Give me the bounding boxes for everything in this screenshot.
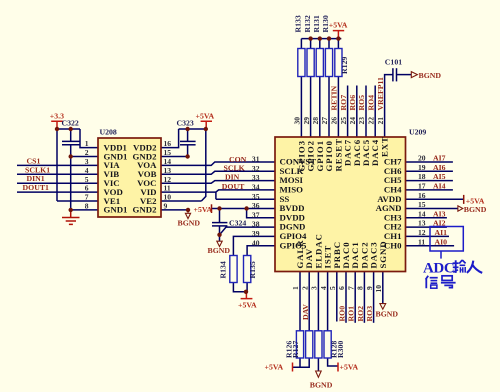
- ground BGND arrow AGND pin15: [458, 206, 463, 211]
- capacitor C101: [393, 68, 397, 81]
- svg-text:AI2: AI2: [433, 219, 446, 228]
- svg-text:U208: U208: [100, 128, 117, 137]
- resistor R132: [307, 49, 314, 77]
- svg-text:1: 1: [85, 139, 89, 148]
- wire SCLK VOB to pin32: [161, 171, 275, 174]
- svg-text:8: 8: [356, 286, 365, 290]
- resistor R128: [315, 331, 322, 358]
- resistor R134: [230, 256, 237, 283]
- wire GPIO4 pin39 to R134: [233, 236, 275, 255]
- capacitor C324: [212, 223, 227, 226]
- wire RO4 pin22: [374, 86, 376, 138]
- svg-text:AI6: AI6: [433, 163, 446, 172]
- ground BGND arrow R128: [316, 371, 322, 377]
- svg-text:+5VA: +5VA: [329, 21, 348, 30]
- svg-text:40: 40: [252, 238, 260, 247]
- svg-text:17: 17: [418, 182, 426, 191]
- wire +3.3 rail: [57, 128, 80, 130]
- svg-text:RO2: RO2: [356, 306, 365, 322]
- svg-text:15: 15: [418, 200, 426, 209]
- wire U208 pin9: [161, 209, 188, 211]
- capacitor C323: [180, 141, 196, 144]
- svg-text:DIN1: DIN1: [27, 174, 45, 183]
- wire VID: [161, 191, 216, 193]
- wire AGND pin15: [406, 208, 458, 210]
- svg-text:RO1: RO1: [347, 306, 356, 322]
- svg-text:GND2: GND2: [133, 205, 158, 215]
- svg-text:13: 13: [418, 219, 426, 228]
- wire CH3 pin14: [406, 217, 447, 219]
- svg-text:5: 5: [85, 175, 89, 184]
- ADC highlight box: [430, 227, 463, 252]
- svg-text:U209: U209: [409, 128, 426, 137]
- svg-text:15: 15: [164, 148, 172, 157]
- wire vertical +3.3 to VE1: [56, 129, 58, 201]
- svg-text:36: 36: [252, 201, 260, 210]
- U209 top pin numbers rotated: [293, 117, 385, 125]
- power +5VA pin16 right: [463, 195, 465, 204]
- svg-text:22: 22: [366, 117, 375, 125]
- svg-text:13: 13: [164, 166, 172, 175]
- svg-text:23: 23: [357, 117, 366, 125]
- svg-text:R129: R129: [340, 57, 349, 74]
- wire U209 bottom pin3: [317, 272, 319, 331]
- U209 right pin numbers: [418, 154, 426, 247]
- svg-text:25: 25: [339, 117, 348, 125]
- resistor R135: [244, 256, 251, 283]
- svg-text:6: 6: [337, 286, 346, 290]
- svg-text:SGND: SGND: [378, 240, 388, 268]
- power +5VA below R134 R135: [241, 292, 253, 299]
- wire DIN VOC to pin33: [161, 181, 275, 184]
- svg-text:RO7: RO7: [339, 95, 348, 111]
- svg-text:R127: R127: [291, 341, 300, 358]
- U208 left pin names: [104, 142, 128, 214]
- wire U208 pin10: [161, 200, 201, 202]
- svg-text:9: 9: [365, 286, 374, 290]
- wire RO7 pin25: [347, 86, 349, 138]
- wire U208 pin7: [57, 200, 98, 202]
- wire RO3 pin9: [373, 272, 375, 323]
- svg-text:SCLK: SCLK: [224, 163, 245, 172]
- wire SS pin35: [216, 198, 275, 200]
- svg-text:BGND: BGND: [464, 205, 487, 214]
- svg-text:R132: R132: [303, 15, 312, 32]
- resistor R126: [296, 331, 303, 358]
- wire U209 bottom pin4: [327, 272, 329, 331]
- U209 right pin names: [376, 157, 402, 251]
- svg-text:GND1: GND1: [104, 205, 128, 215]
- wire RO2 pin8: [363, 272, 365, 323]
- svg-text:RO5: RO5: [357, 95, 366, 111]
- U209 left pin names: [280, 157, 317, 251]
- svg-text:DOUT: DOUT: [222, 182, 245, 191]
- wire GPIO5 pin40 to R135: [247, 246, 275, 256]
- svg-text:ADC: ADC: [423, 261, 454, 277]
- wire CS1: [17, 164, 98, 166]
- svg-text:DOUT1: DOUT1: [23, 183, 50, 192]
- svg-text:38: 38: [252, 220, 260, 229]
- power +3.3: [51, 121, 63, 129]
- resistor R127: [306, 331, 313, 358]
- wire RO1 pin7: [354, 272, 356, 323]
- svg-text:2: 2: [85, 148, 89, 157]
- svg-text:39: 39: [252, 229, 260, 238]
- wire SGND pin10 to BGND: [382, 272, 384, 303]
- svg-text:C101: C101: [385, 57, 402, 66]
- svg-text:+5VA: +5VA: [340, 363, 359, 372]
- svg-text:1: 1: [291, 286, 300, 290]
- resistor R300: [324, 331, 331, 358]
- wire U209 bottom pin1: [299, 272, 301, 331]
- svg-text:DAV: DAV: [301, 304, 310, 320]
- wire CH0 pin11: [406, 245, 455, 247]
- power +5VA pin36: [211, 204, 213, 213]
- svg-text:AI3: AI3: [433, 209, 446, 218]
- svg-text:27: 27: [320, 117, 329, 125]
- svg-text:+5VA: +5VA: [196, 111, 215, 120]
- wire resistor leads top: [301, 39, 338, 49]
- wire U208 pin2: [71, 156, 98, 158]
- svg-text:4: 4: [319, 286, 328, 290]
- wire U209 top pin30: [300, 77, 302, 138]
- net label RETIN rotated: [330, 77, 385, 110]
- wire CH2 pin13: [406, 226, 447, 228]
- wire DVDD pin37 riser: [247, 209, 275, 218]
- svg-text:3: 3: [310, 286, 319, 290]
- wire RO0 pin6: [345, 272, 347, 323]
- svg-text:6: 6: [85, 184, 89, 193]
- wire DOUT1: [17, 191, 98, 193]
- svg-text:14: 14: [164, 157, 172, 166]
- wire DOUT pin34: [216, 190, 275, 199]
- wire R134 R135 bottoms: [233, 283, 247, 292]
- svg-text:EXT: EXT: [380, 136, 390, 157]
- svg-text:37: 37: [252, 210, 260, 219]
- ADC callout stem: [440, 251, 442, 259]
- power +5VA below R126: [292, 363, 294, 372]
- svg-text:C324: C324: [229, 219, 246, 228]
- svg-text:+5VA: +5VA: [194, 205, 213, 214]
- wire RO5 pin23: [365, 86, 367, 138]
- svg-text:AI5: AI5: [433, 172, 446, 181]
- svg-text:7: 7: [346, 286, 355, 290]
- wire U208 pin8: [71, 209, 98, 211]
- wire U209 bottom pin2: [308, 272, 310, 331]
- wire RO6 pin24: [356, 86, 358, 138]
- svg-text:BGND: BGND: [376, 310, 399, 319]
- wire R126 R127 bottoms to +5VA: [293, 358, 310, 367]
- wire SCLK1: [17, 173, 98, 175]
- svg-text:11: 11: [418, 237, 425, 246]
- U208 right pin names: [133, 142, 158, 214]
- wire R128 bottom to BGND: [317, 358, 319, 371]
- capacitor C322: [62, 141, 80, 144]
- wire VREFP11 pin21 to C101: [385, 75, 393, 137]
- svg-text:12: 12: [418, 228, 426, 237]
- resistor designators R133 R132 R131 R130 rotated: [219, 15, 349, 358]
- svg-text:+5VA: +5VA: [238, 301, 257, 310]
- wire U209 top pin26 RETIN: [337, 77, 339, 138]
- svg-text:7: 7: [85, 193, 89, 202]
- wire DIN1: [17, 182, 98, 184]
- svg-text:R134: R134: [219, 261, 228, 278]
- svg-text:18: 18: [418, 172, 426, 181]
- wire U209 top pin27: [328, 77, 330, 138]
- svg-text:32: 32: [252, 164, 260, 173]
- wire +5VA vertical to VE2: [201, 129, 205, 201]
- svg-text:14: 14: [418, 209, 426, 218]
- net label DAV rotated: [301, 304, 374, 322]
- svg-text:DIN: DIN: [225, 173, 240, 182]
- svg-text:9: 9: [164, 202, 168, 211]
- wire U209 right pin19: [406, 170, 453, 172]
- wire R300 bottom to +5VA: [328, 358, 338, 366]
- svg-text:RO3: RO3: [365, 306, 374, 322]
- svg-text:29: 29: [302, 117, 311, 125]
- wire +5VA rail right: [179, 128, 207, 130]
- svg-text:R300: R300: [336, 341, 345, 358]
- svg-text:RO6: RO6: [348, 95, 357, 111]
- glyph ru (入) drawn as paths: [467, 261, 482, 273]
- glyph hao (号) drawn as paths: [441, 276, 456, 288]
- svg-text:10: 10: [164, 193, 172, 202]
- svg-text:35: 35: [252, 192, 260, 201]
- svg-text:2: 2: [300, 286, 309, 290]
- wire AVDD pin16: [406, 198, 464, 200]
- wire U209 right pin20: [406, 161, 453, 163]
- svg-text:26: 26: [330, 117, 339, 125]
- resistor R131: [316, 49, 323, 77]
- svg-text:AI0: AI0: [435, 237, 448, 246]
- U208 left pin numbers: [85, 139, 89, 210]
- ground BGND arrow C324: [217, 241, 222, 246]
- svg-text:33: 33: [252, 173, 260, 182]
- resistor R130: [325, 49, 332, 77]
- wire C101 to BGND: [397, 74, 412, 76]
- U209 top pin names rotated: [296, 136, 389, 171]
- U209 bottom pin names rotated: [295, 233, 388, 268]
- svg-text:8: 8: [85, 202, 89, 211]
- wire CH1 pin12: [406, 235, 450, 237]
- svg-text:BGND: BGND: [310, 380, 333, 389]
- U209 bottom pin numbers rotated: [291, 285, 383, 293]
- ground BGND arrow C101: [411, 72, 417, 78]
- svg-text:VREFP11: VREFP11: [376, 77, 385, 110]
- svg-text:31: 31: [252, 155, 260, 164]
- chip U209: [275, 137, 406, 272]
- wire U208 pin16 to +5VA rail: [161, 129, 179, 148]
- svg-text:BGND: BGND: [419, 71, 442, 80]
- net labels AI7 AI6 AI5 AI4: [433, 154, 487, 247]
- wire U209 right pin18: [406, 180, 453, 182]
- resistor R129: [335, 49, 342, 77]
- glyph xin (信) drawn as paths: [426, 276, 438, 289]
- wire vertical GND1 bus: [70, 157, 72, 210]
- svg-text:C323: C323: [177, 119, 194, 128]
- wire U209 bottom pin5: [336, 272, 338, 322]
- ground BGND arrow U208 pin9: [185, 210, 190, 219]
- svg-text:CS1: CS1: [27, 156, 41, 165]
- svg-text:21: 21: [376, 117, 385, 125]
- wire resistor rail top: [301, 38, 341, 40]
- svg-text:20: 20: [418, 154, 426, 163]
- wire DGND pin38: [220, 227, 276, 235]
- U209 left pin numbers: [252, 155, 260, 248]
- wire U209 top pin29: [310, 77, 312, 138]
- svg-text:5: 5: [328, 286, 337, 290]
- svg-text:AI1: AI1: [435, 228, 448, 237]
- svg-text:16: 16: [164, 139, 172, 148]
- ground symbol left: [62, 210, 80, 225]
- svg-text:R131: R131: [312, 15, 321, 32]
- resistor R133: [298, 49, 305, 77]
- power +5VA below R300: [337, 363, 339, 372]
- svg-text:16: 16: [418, 191, 426, 200]
- wire BVDD pin36: [212, 208, 276, 210]
- svg-text:RO0: RO0: [338, 306, 347, 322]
- glyph shu (输) drawn as paths: [453, 260, 466, 273]
- power +5VA resistor rail: [333, 31, 344, 39]
- svg-text:C322: C322: [62, 119, 79, 128]
- chip U208: [98, 138, 161, 217]
- wire U208 pin1 to +3.3 rail: [80, 129, 98, 148]
- svg-text:12: 12: [164, 175, 172, 184]
- svg-text:RO4: RO4: [366, 95, 375, 111]
- svg-text:4: 4: [85, 166, 89, 175]
- svg-text:34: 34: [252, 183, 260, 192]
- svg-text:AI7: AI7: [433, 154, 446, 163]
- svg-text:BGND: BGND: [208, 246, 231, 255]
- svg-text:RETIN: RETIN: [330, 85, 339, 110]
- ground BGND arrow SGND pin10: [380, 304, 386, 310]
- svg-text:SCLK1: SCLK1: [25, 165, 50, 174]
- svg-text:24: 24: [348, 117, 357, 125]
- svg-text:BGND: BGND: [178, 219, 201, 228]
- U208 right pin numbers: [164, 139, 172, 210]
- wire U209 top pin28: [319, 77, 321, 138]
- svg-text:R135: R135: [248, 261, 257, 278]
- power +5VA top U208: [201, 121, 212, 129]
- svg-text:10: 10: [374, 285, 383, 293]
- svg-text:19: 19: [418, 163, 426, 172]
- svg-text:AI4: AI4: [433, 182, 446, 191]
- wire U208 pin15: [161, 156, 188, 158]
- svg-text:R133: R133: [294, 15, 303, 32]
- svg-text:30: 30: [293, 117, 302, 125]
- svg-text:28: 28: [311, 117, 320, 125]
- svg-text:+5VA: +5VA: [265, 363, 284, 372]
- svg-text:3: 3: [85, 157, 89, 166]
- wire U209 right pin17: [406, 189, 453, 191]
- svg-text:11: 11: [164, 184, 171, 193]
- wire CON VOA to pin31: [161, 162, 275, 165]
